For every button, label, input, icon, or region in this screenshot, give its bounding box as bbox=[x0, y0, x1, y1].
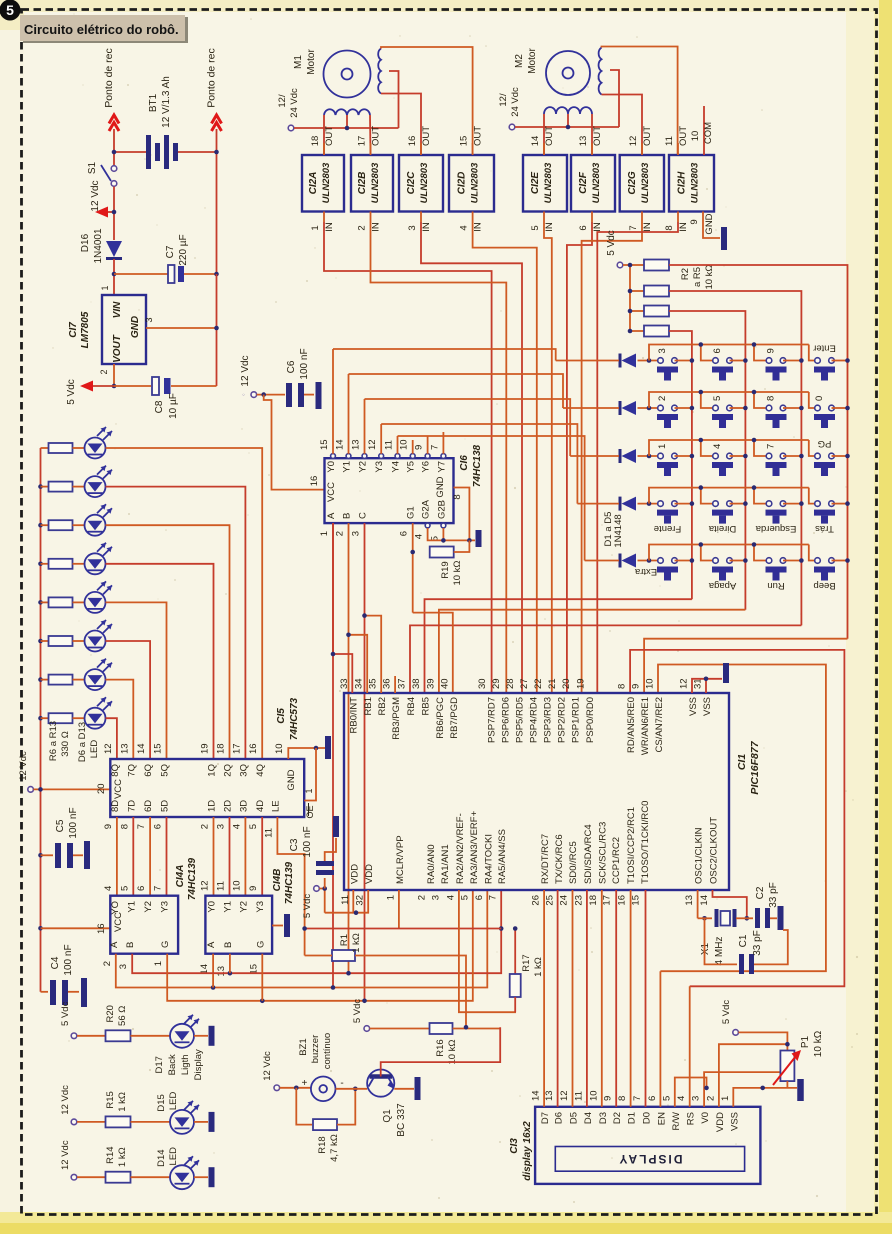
svg-text:CI3: CI3 bbox=[509, 1138, 520, 1154]
decoder CI6 74HC138 box bbox=[325, 458, 454, 523]
wire node to C7 bbox=[114, 273, 169, 275]
svg-text:OE: OE bbox=[305, 805, 315, 818]
svg-text:1Q: 1Q bbox=[207, 764, 218, 777]
terminal 5 Vdc D17 bbox=[71, 1033, 77, 1039]
svg-text:SCK/SCL/RC3: SCK/SCL/RC3 bbox=[597, 822, 608, 884]
svg-text:33: 33 bbox=[339, 678, 350, 689]
wire button Enter to column 4 bbox=[832, 360, 848, 362]
resistor R7 bbox=[38, 484, 43, 489]
wire row 3 drop to button col 2 bbox=[701, 440, 716, 456]
svg-text:R20: R20 bbox=[105, 1005, 116, 1022]
svg-text:2: 2 bbox=[200, 824, 211, 829]
LED D13 bbox=[85, 708, 106, 729]
capacitor C2 33pF bbox=[747, 917, 753, 919]
wire LED D9 to CI5 bbox=[106, 564, 214, 759]
svg-text:Frente: Frente bbox=[654, 523, 681, 534]
resistor R14 bbox=[77, 1176, 105, 1178]
pin 2 IN of CI2B bbox=[370, 212, 372, 223]
svg-text:8: 8 bbox=[766, 396, 777, 401]
svg-text:Trás: Trás bbox=[815, 523, 834, 534]
wire VDD rail bbox=[353, 890, 368, 913]
wire 12V LED rail bbox=[40, 448, 42, 992]
svg-text:C5: C5 bbox=[55, 819, 66, 832]
resistor R19 bbox=[412, 523, 414, 613]
svg-text:14: 14 bbox=[335, 439, 346, 450]
LED D9 bbox=[85, 553, 106, 574]
svg-text:VSS: VSS bbox=[688, 697, 699, 716]
svg-text:RB3/PGM: RB3/PGM bbox=[391, 697, 402, 740]
LED D15 bbox=[170, 1110, 194, 1134]
wire rail to CI4A VCC bbox=[38, 926, 43, 931]
svg-text:D7: D7 bbox=[540, 1112, 551, 1124]
svg-text:27: 27 bbox=[519, 678, 530, 689]
svg-text:R18: R18 bbox=[317, 1136, 328, 1153]
svg-text:Y0: Y0 bbox=[326, 461, 337, 473]
svg-text:OUT: OUT bbox=[421, 126, 432, 146]
svg-text:Y7: Y7 bbox=[436, 461, 447, 473]
svg-text:D6: D6 bbox=[554, 1112, 565, 1124]
svg-text:5: 5 bbox=[459, 895, 470, 900]
inductor M1 winding B bbox=[378, 49, 381, 94]
svg-text:6: 6 bbox=[647, 1096, 658, 1101]
wire button 8 to column 3 bbox=[783, 407, 801, 409]
svg-text:12: 12 bbox=[200, 880, 211, 891]
svg-text:B: B bbox=[125, 942, 136, 948]
svg-text:Y2: Y2 bbox=[358, 461, 369, 473]
wire keypad row 5 line bbox=[585, 560, 619, 562]
svg-text:CI7: CI7 bbox=[68, 322, 79, 338]
svg-text:7: 7 bbox=[632, 1096, 643, 1101]
wire LED D12 to CI5 bbox=[106, 680, 134, 759]
figure number badge 5 bbox=[0, 0, 21, 21]
pin 13 Y2 of CI6 bbox=[362, 454, 367, 459]
svg-text:T1OSO/T1CKI/RC0: T1OSO/T1CKI/RC0 bbox=[640, 801, 651, 884]
svg-text:10 kΩ: 10 kΩ bbox=[452, 560, 463, 585]
diode D1 keypad row 1 bbox=[619, 354, 622, 368]
svg-text:330 Ω: 330 Ω bbox=[60, 731, 71, 757]
svg-text:ULN2803: ULN2803 bbox=[370, 162, 381, 203]
resistor R17 1k bbox=[514, 929, 516, 975]
wire CI2D IN to PIC pin 27 bbox=[473, 222, 537, 693]
svg-text:CI4B: CI4B bbox=[272, 869, 283, 892]
svg-text:RB2: RB2 bbox=[377, 697, 388, 715]
wire row 4 drop to button col 3 bbox=[754, 488, 769, 504]
svg-text:IN: IN bbox=[544, 222, 555, 232]
svg-text:RX/DT/RC7: RX/DT/RC7 bbox=[540, 834, 551, 884]
wire CI5 4D to CI4 bbox=[261, 817, 263, 896]
wire LED D11 to CI5 bbox=[106, 641, 151, 759]
svg-text:10: 10 bbox=[231, 880, 242, 891]
terminal 5 Vdc PIC bbox=[314, 886, 320, 892]
svg-text:OUT: OUT bbox=[678, 126, 689, 146]
wire button Beep to column 4 bbox=[832, 560, 848, 562]
svg-text:10: 10 bbox=[274, 743, 285, 754]
wire M2 winding B bottom to CI2G OUT bbox=[602, 95, 643, 156]
svg-text:+: + bbox=[301, 1078, 307, 1089]
push button 7 bbox=[766, 453, 772, 459]
diode D4 keypad row 4 bbox=[619, 497, 622, 511]
svg-text:1: 1 bbox=[720, 1096, 731, 1101]
svg-text:Apaga: Apaga bbox=[708, 580, 736, 591]
svg-text:7: 7 bbox=[488, 895, 499, 900]
wire display V0 to P1 wiper bbox=[704, 1072, 780, 1107]
svg-text:SD0//RC5: SD0//RC5 bbox=[568, 841, 579, 884]
svg-text:OUT: OUT bbox=[324, 126, 335, 146]
push button 6 bbox=[713, 358, 719, 364]
transistor Q1 BC337 bbox=[367, 1070, 394, 1097]
svg-text:6: 6 bbox=[136, 886, 147, 891]
crystal X1 4MHz bbox=[715, 909, 719, 927]
pin 6 IN of CI2F bbox=[591, 212, 593, 223]
svg-text:Y3: Y3 bbox=[255, 901, 266, 913]
wire M2 winding B top to CI2H OUT bbox=[602, 47, 678, 156]
svg-text:CI1: CI1 bbox=[736, 754, 748, 771]
svg-text:5: 5 bbox=[661, 1096, 672, 1101]
svg-text:10 µF: 10 µF bbox=[168, 393, 179, 419]
svg-text:220 µF: 220 µF bbox=[178, 234, 189, 265]
resistor R12 bbox=[38, 677, 43, 682]
svg-text:Beep: Beep bbox=[813, 580, 835, 591]
wire CI6 A to PIC pin 33 and CI4 A net bbox=[332, 523, 334, 987]
svg-text:4: 4 bbox=[459, 225, 470, 230]
driver CI2H ULN2803 box bbox=[669, 155, 714, 212]
ground bar C2 bbox=[778, 906, 784, 930]
wire VOUT down bbox=[113, 364, 115, 386]
wire CI2B IN to PIC pin 29 bbox=[371, 222, 507, 693]
svg-text:CI4A: CI4A bbox=[175, 865, 186, 888]
svg-text:RA0/AN0: RA0/AN0 bbox=[426, 844, 437, 884]
pin 4 G2A of CI6 bbox=[425, 523, 430, 528]
svg-text:D2: D2 bbox=[612, 1112, 623, 1124]
ground bar CI5 bbox=[325, 736, 331, 759]
wire button 3 to column 1 bbox=[675, 360, 692, 362]
svg-text:14: 14 bbox=[531, 1090, 542, 1101]
svg-text:12/: 12/ bbox=[498, 93, 509, 107]
svg-text:Motor: Motor bbox=[527, 48, 538, 74]
wire display VSS ground rail bbox=[733, 1088, 797, 1107]
wire 5V to VDD and C3 bbox=[319, 889, 324, 913]
wire button 1 to column 1 bbox=[675, 455, 692, 457]
svg-text:Y1: Y1 bbox=[126, 901, 137, 913]
svg-text:1 kΩ: 1 kΩ bbox=[351, 933, 362, 953]
svg-text:10: 10 bbox=[399, 439, 410, 450]
svg-text:D15: D15 bbox=[156, 1094, 167, 1111]
svg-text:OUT: OUT bbox=[473, 126, 484, 146]
svg-text:11: 11 bbox=[573, 1091, 584, 1101]
svg-text:5 Vdc: 5 Vdc bbox=[721, 1000, 732, 1025]
svg-text:8: 8 bbox=[452, 494, 463, 499]
svg-text:BT1: BT1 bbox=[148, 93, 159, 112]
wire row 3 drop to button col 3 bbox=[754, 440, 769, 456]
svg-text:VOUT: VOUT bbox=[112, 334, 123, 363]
resistor R6 bbox=[41, 447, 49, 449]
svg-text:OSC2/CLKOUT: OSC2/CLKOUT bbox=[709, 817, 720, 884]
wire row 5 drop to button col 3 bbox=[754, 545, 769, 561]
svg-text:8: 8 bbox=[119, 824, 130, 829]
resistor R9 bbox=[38, 562, 43, 567]
svg-text:G: G bbox=[160, 941, 171, 948]
svg-text:3Q: 3Q bbox=[238, 764, 249, 777]
resistor R2 bbox=[644, 260, 669, 271]
capacitor C1 33pF bbox=[705, 918, 738, 964]
node 5 Vdc arrow bbox=[80, 381, 93, 392]
svg-text:2D: 2D bbox=[223, 800, 234, 812]
svg-text:B: B bbox=[223, 942, 234, 948]
svg-text:14: 14 bbox=[699, 895, 710, 906]
svg-text:2: 2 bbox=[705, 1096, 716, 1101]
svg-text:display 16x2: display 16x2 bbox=[522, 1121, 533, 1181]
wire row 2 drop to button col 3 bbox=[754, 392, 769, 408]
pin 11 OUT of CI2H bbox=[677, 143, 679, 155]
svg-text:GND: GND bbox=[130, 316, 141, 338]
wire CI6 Y2 to keypad row 3 bbox=[365, 399, 571, 456]
push button Beep bbox=[815, 558, 821, 564]
svg-text:CI2G: CI2G bbox=[627, 171, 638, 195]
svg-text:38: 38 bbox=[411, 678, 422, 689]
svg-text:PSP3/RD3: PSP3/RD3 bbox=[542, 697, 553, 743]
svg-text:14: 14 bbox=[530, 136, 541, 147]
ground bar C6 bbox=[316, 382, 322, 409]
svg-text:74HC139: 74HC139 bbox=[284, 861, 295, 904]
svg-text:32: 32 bbox=[355, 895, 366, 906]
svg-text:OUT: OUT bbox=[642, 126, 653, 146]
push button Esquerda bbox=[766, 501, 772, 507]
pin 17 OUT of CI2B bbox=[370, 143, 372, 155]
svg-text:Y5: Y5 bbox=[406, 461, 417, 473]
wire column 3 to PIC pin 37 bbox=[410, 625, 801, 693]
svg-text:D6 a D13: D6 a D13 bbox=[77, 722, 88, 762]
svg-text:9: 9 bbox=[689, 219, 700, 224]
wire CI6 G1 to PIC pin 40 bbox=[413, 613, 453, 693]
svg-text:100 nF: 100 nF bbox=[299, 348, 310, 379]
svg-text:BC 337: BC 337 bbox=[396, 1103, 407, 1137]
svg-text:7: 7 bbox=[153, 886, 164, 891]
svg-text:CI2D: CI2D bbox=[457, 172, 468, 195]
svg-text:10 kΩ: 10 kΩ bbox=[704, 264, 715, 289]
wire LE to R1 node bbox=[277, 817, 304, 956]
wire row 5 drop to button col 4 bbox=[809, 545, 818, 561]
wire 12Vdc node to C6 bbox=[257, 394, 285, 396]
svg-text:BZ1: BZ1 bbox=[298, 1038, 309, 1055]
svg-text:1N4001: 1N4001 bbox=[93, 228, 104, 263]
svg-text:8: 8 bbox=[664, 225, 675, 230]
svg-text:D16: D16 bbox=[80, 233, 91, 252]
capacitor C4 100nF bbox=[41, 991, 49, 993]
pin 8 IN of CI2H bbox=[677, 212, 679, 223]
terminal 5 Vdc keypad bbox=[617, 262, 623, 268]
svg-text:3: 3 bbox=[118, 964, 129, 969]
svg-text:GND: GND bbox=[704, 213, 715, 234]
svg-text:Display: Display bbox=[193, 1049, 204, 1080]
wire CI5 5D to CI4 bbox=[166, 817, 168, 896]
svg-text:1 kΩ: 1 kΩ bbox=[533, 957, 544, 977]
wire button Direita to column 2 bbox=[730, 503, 746, 505]
resistor R5 bbox=[644, 326, 669, 337]
svg-text:18: 18 bbox=[310, 136, 321, 147]
microcontroller CI1 PIC16F877 box bbox=[344, 693, 729, 890]
svg-text:11: 11 bbox=[216, 881, 227, 891]
wire M1 winding A centre tap bbox=[346, 115, 348, 128]
wire CI2H IN to PIC pin 19 bbox=[597, 222, 678, 693]
wire CI6 Y0 to keypad row 1 bbox=[333, 349, 556, 361]
svg-text:7D: 7D bbox=[126, 800, 137, 812]
diode D5 keypad row 5 bbox=[619, 554, 622, 568]
svg-text:11: 11 bbox=[340, 895, 351, 905]
wire row 1 drop to button col 3 bbox=[754, 345, 769, 361]
wire row 3 drop to button col 4 bbox=[809, 440, 818, 456]
svg-text:ULN2803: ULN2803 bbox=[321, 162, 332, 203]
terminal 12 Vdc D14 bbox=[71, 1174, 77, 1180]
svg-text:EN: EN bbox=[656, 1112, 667, 1125]
wire display RW ground bbox=[675, 1078, 707, 1107]
svg-text:D0: D0 bbox=[642, 1112, 653, 1124]
capacitor C3 100nF bbox=[324, 878, 326, 889]
wire CI4B G down bbox=[261, 954, 263, 1001]
svg-text:11: 11 bbox=[263, 828, 274, 838]
svg-text:15: 15 bbox=[153, 743, 164, 754]
pin 5 IN of CI2E bbox=[543, 212, 545, 223]
svg-text:12 Vdc: 12 Vdc bbox=[18, 751, 29, 781]
svg-text:G2A: G2A bbox=[421, 499, 432, 519]
svg-text:IN: IN bbox=[324, 222, 335, 232]
svg-text:4: 4 bbox=[712, 444, 723, 449]
svg-text:IN: IN bbox=[473, 222, 484, 232]
wire D15 cathode bar bbox=[194, 1121, 208, 1123]
svg-text:V0: V0 bbox=[700, 1112, 711, 1124]
wire S1 to 12Vdc node bbox=[113, 187, 115, 241]
wire CI2G IN to PIC pin 20 bbox=[582, 222, 642, 693]
svg-text:74HC139: 74HC139 bbox=[187, 857, 198, 900]
resistor R3 bbox=[644, 286, 669, 297]
svg-text:4: 4 bbox=[231, 824, 242, 829]
ground bar PIC VSS bbox=[723, 663, 729, 683]
motor M2 bbox=[546, 51, 590, 95]
svg-text:100 nF: 100 nF bbox=[63, 944, 74, 975]
svg-text:A: A bbox=[109, 941, 120, 948]
svg-text:4 MHz: 4 MHz bbox=[714, 937, 725, 966]
push button Enter bbox=[815, 358, 821, 364]
svg-text:5 Vdc: 5 Vdc bbox=[66, 379, 77, 405]
svg-text:13: 13 bbox=[684, 895, 695, 906]
svg-text:Y2: Y2 bbox=[238, 901, 249, 913]
pin 11 Y4 of CI6 bbox=[395, 454, 400, 459]
svg-text:C4: C4 bbox=[50, 956, 61, 969]
svg-text:25: 25 bbox=[545, 895, 556, 906]
driver CI2F ULN2803 box bbox=[571, 155, 615, 212]
svg-text:VCC: VCC bbox=[113, 912, 124, 932]
capacitor C7 220uF bbox=[168, 265, 175, 283]
wire CI4 A net bbox=[116, 890, 488, 988]
svg-text:13: 13 bbox=[119, 743, 130, 754]
svg-text:PSP1/RD1: PSP1/RD1 bbox=[570, 697, 581, 743]
display CI3 box bbox=[535, 1107, 760, 1184]
svg-text:9: 9 bbox=[248, 886, 259, 891]
svg-text:74HC138: 74HC138 bbox=[472, 444, 483, 487]
wire OSC2 to crystal bbox=[713, 890, 747, 918]
terminal 12/24 Vdc M2 bbox=[509, 124, 515, 130]
svg-text:17: 17 bbox=[602, 895, 613, 906]
push button 4 bbox=[713, 453, 719, 459]
wire button Esquerda to column 3 bbox=[783, 503, 801, 505]
wire button Apaga to column 2 bbox=[730, 560, 746, 562]
svg-text:9: 9 bbox=[631, 684, 642, 689]
LED D6 bbox=[85, 438, 106, 459]
svg-text:Ponto de rec: Ponto de rec bbox=[206, 48, 218, 108]
svg-text:R14: R14 bbox=[105, 1146, 116, 1163]
svg-text:35: 35 bbox=[368, 678, 379, 689]
svg-text:5 Vdc: 5 Vdc bbox=[606, 230, 617, 256]
svg-text:S1: S1 bbox=[87, 161, 98, 174]
wire CI2A IN to PIC pin 30 bbox=[324, 222, 492, 693]
svg-text:1N4148: 1N4148 bbox=[613, 514, 624, 547]
wire LED D13 to CI5 bbox=[106, 718, 117, 759]
svg-text:RB5: RB5 bbox=[421, 697, 432, 715]
svg-text:GND: GND bbox=[286, 769, 297, 790]
svg-text:7: 7 bbox=[628, 225, 639, 230]
terminal 12 Vdc mid bbox=[251, 392, 257, 398]
inductor M2 winding A bbox=[544, 107, 592, 114]
pin 13 OUT of CI2F bbox=[591, 143, 593, 155]
svg-text:8: 8 bbox=[617, 684, 628, 689]
push button 9 bbox=[766, 358, 772, 364]
svg-text:19: 19 bbox=[576, 678, 587, 689]
svg-text:ULN2803: ULN2803 bbox=[591, 162, 602, 203]
wire button 6 to column 2 bbox=[730, 360, 746, 362]
svg-text:4: 4 bbox=[676, 1096, 687, 1101]
display window bbox=[555, 1147, 744, 1172]
wire D17 cathode bar bbox=[194, 1035, 208, 1037]
svg-text:20: 20 bbox=[561, 678, 572, 689]
svg-text:C6: C6 bbox=[286, 360, 297, 373]
push button Extra bbox=[658, 558, 664, 564]
svg-text:Y3: Y3 bbox=[374, 461, 385, 473]
svg-text:SDI/SDA/RC4: SDI/SDA/RC4 bbox=[583, 824, 594, 884]
svg-text:100 nF: 100 nF bbox=[68, 807, 79, 838]
svg-text:23: 23 bbox=[573, 895, 584, 906]
svg-text:OUT: OUT bbox=[371, 126, 382, 146]
svg-text:12 Vdc: 12 Vdc bbox=[90, 180, 101, 211]
svg-text:4: 4 bbox=[103, 886, 114, 891]
svg-text:16: 16 bbox=[407, 136, 418, 147]
svg-text:CCP1/RC2: CCP1/RC2 bbox=[611, 837, 622, 884]
svg-text:7: 7 bbox=[766, 444, 777, 449]
svg-text:D1: D1 bbox=[627, 1112, 638, 1124]
wire R5 to column 1 bbox=[669, 331, 692, 599]
svg-text:LED: LED bbox=[168, 1092, 179, 1111]
svg-text:Esquerda: Esquerda bbox=[755, 523, 796, 534]
svg-text:LE: LE bbox=[270, 800, 281, 812]
svg-text:14: 14 bbox=[136, 743, 147, 754]
svg-text:9: 9 bbox=[603, 1096, 614, 1101]
motor M1 bbox=[324, 51, 371, 98]
svg-text:9: 9 bbox=[766, 348, 777, 353]
battery BT1 bbox=[114, 151, 146, 153]
svg-text:VIN: VIN bbox=[112, 301, 123, 318]
wire CI6 Y3 to keypad row 4 bbox=[381, 424, 577, 504]
diode D3 keypad row 3 bbox=[619, 449, 622, 463]
wire CI6 C down bbox=[364, 523, 366, 1001]
svg-text:PSP5/RD5: PSP5/RD5 bbox=[514, 697, 525, 743]
wire button Frente to column 1 bbox=[675, 503, 692, 505]
wire Q1 base bbox=[381, 1027, 501, 1076]
pin 10 COM of CI2H bbox=[703, 119, 705, 155]
regulator CI7 LM7805 box bbox=[102, 295, 146, 364]
svg-text:D14: D14 bbox=[156, 1149, 167, 1166]
svg-text:16: 16 bbox=[96, 923, 107, 934]
wire PIC pin 8 to display RS bbox=[630, 650, 844, 986]
wire RB1 to CI6 B bbox=[349, 635, 368, 693]
wire button PG to column 4 bbox=[832, 455, 848, 457]
